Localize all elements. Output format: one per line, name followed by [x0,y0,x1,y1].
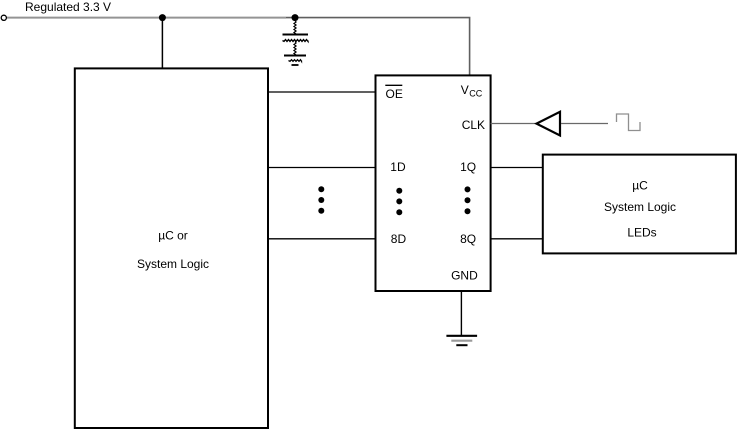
svg-text:1Q: 1Q [460,160,476,174]
svg-text:µC or: µC or [158,229,188,243]
svg-text:System Logic: System Logic [137,257,209,271]
svg-text:V: V [461,83,469,97]
ellipsis dots: D bus continuation [318,186,324,214]
svg-text:LEDs: LEDs [627,225,656,239]
svg-text:1D: 1D [390,160,406,174]
ground (GND pin) [446,336,477,345]
ellipsis dots: Q column inside register [465,186,471,214]
wire: rail drop to uC box top [161,19,163,69]
svg-text:GND: GND [451,268,478,282]
wire: buffer input [561,123,608,125]
wire: CLK (register to buffer output) [491,123,536,125]
node B: junction dot [292,14,299,21]
block: uC / System Logic / LEDs [543,155,736,254]
svg-text:System Logic: System Logic [604,200,676,214]
node A: junction dot [159,14,166,21]
terminal: 3.3V input [1,15,6,20]
svg-text:OE: OE [386,87,403,101]
wire: VCC feed (rail right segment + corner down to register VCC pin) [286,18,470,76]
ellipsis dots: D column inside register [396,188,402,215]
svg-text:8D: 8D [391,232,407,246]
svg-text:8Q: 8Q [460,232,476,246]
svg-text:CC: CC [469,88,482,98]
ground (capacitor) [284,56,306,66]
svg-text:Regulated 3.3 V: Regulated 3.3 V [25,0,111,14]
wire: OE (uC to register) [268,91,376,93]
wire: 8Q (register to LED block) [491,238,543,240]
buffer U2 (clock driver, pointing left) [537,112,561,136]
wire: GND pin to ground [460,292,462,336]
wire: 3.3V rail (left segment) [7,17,286,19]
register U1 (8-bit flip-flop / driver) [376,75,491,291]
svg-text:µC: µC [632,178,648,192]
wire: 1Q (register to LED block) [491,167,543,169]
wire: 1D (uC to register) [268,167,376,169]
block: uC or System Logic [75,68,268,428]
wire: 8D (uC to register) [268,238,376,240]
clock waveform symbol [617,114,641,131]
svg-text:CLK: CLK [462,118,485,132]
capacitor C1 (bypass) [283,21,309,56]
